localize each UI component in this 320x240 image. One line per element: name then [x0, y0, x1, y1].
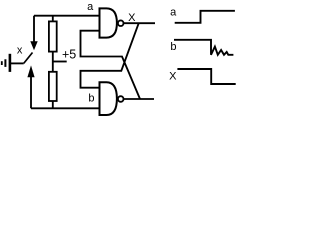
svg-text:b: b	[170, 41, 176, 53]
nand gate U1 bubble	[118, 20, 124, 26]
nand gate U1 body	[100, 8, 117, 37]
svg-text:a: a	[170, 7, 177, 19]
resistor R2	[49, 72, 57, 109]
waveform a trace	[175, 11, 235, 23]
nand gate U2 body	[100, 82, 117, 115]
svg-text:X: X	[128, 12, 136, 24]
svg-text:a: a	[87, 1, 94, 13]
svg-text:X: X	[169, 71, 177, 83]
switch bottom contact arrow	[27, 65, 34, 108]
svg-text:x: x	[17, 45, 23, 57]
wire top rail node a	[34, 15, 100, 17]
+5 supply stub	[53, 61, 67, 63]
waveform X trace	[177, 69, 235, 84]
waveform b trace with contact bounce	[174, 40, 233, 55]
ground	[2, 54, 10, 72]
svg-text:b: b	[88, 93, 94, 105]
wire feedback U1 output to U2 upper input	[81, 23, 139, 88]
switch top contact arrow	[30, 16, 37, 51]
wire bottom rail node b	[31, 107, 100, 109]
svg-text:+5: +5	[62, 47, 76, 61]
wire switch pole	[11, 62, 24, 64]
wire U2 output	[124, 98, 154, 100]
wire R1 to +5 junction	[52, 52, 54, 72]
resistor R1	[49, 16, 57, 52]
nand gate U2 bubble	[118, 96, 124, 102]
wire U1 output X	[124, 22, 155, 24]
switch x lever	[24, 53, 33, 64]
wire feedback U2 output to U1 lower input	[81, 31, 141, 99]
